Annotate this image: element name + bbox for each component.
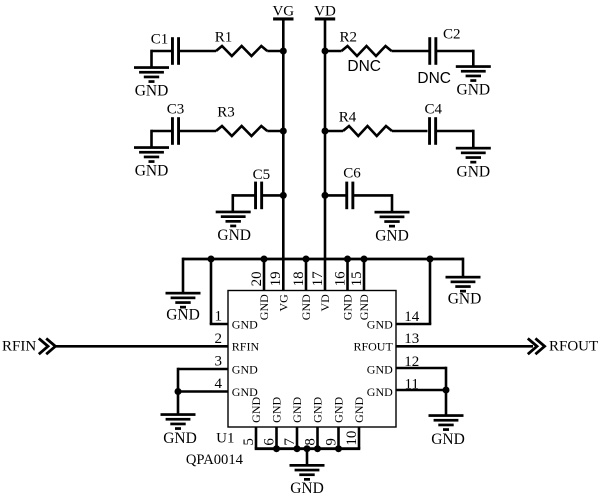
svg-text:6: 6 xyxy=(262,438,278,446)
junction bottom bus xyxy=(294,445,301,452)
svg-text:U1: U1 xyxy=(216,430,234,446)
wire C2 to ground drop xyxy=(436,50,473,53)
wire VG rail xyxy=(282,19,285,291)
svg-text:GND: GND xyxy=(367,385,393,399)
resistor R3 xyxy=(216,126,267,136)
svg-text:12: 12 xyxy=(404,354,419,370)
wire R1 to VG rail xyxy=(267,50,283,53)
wire pin 20 stub xyxy=(263,259,266,291)
wire pin13 to RFOUT xyxy=(396,345,533,348)
svg-text:C4: C4 xyxy=(425,101,443,117)
svg-text:GND: GND xyxy=(232,317,258,331)
junction bus/pin 18 xyxy=(303,256,310,263)
svg-text:GND: GND xyxy=(375,227,409,244)
wire pin 18 stub xyxy=(305,259,308,291)
wire bus left drop xyxy=(182,258,185,293)
power flag VD xyxy=(314,4,336,21)
wire pin1 branch xyxy=(210,259,213,324)
svg-text:VG: VG xyxy=(277,294,291,312)
junction bus/pin 20 xyxy=(261,256,268,263)
svg-text:8: 8 xyxy=(303,438,319,446)
svg-text:GND: GND xyxy=(352,396,366,422)
svg-text:2: 2 xyxy=(215,331,223,347)
svg-text:VD: VD xyxy=(314,4,336,20)
svg-text:GND: GND xyxy=(290,480,324,497)
svg-text:GND: GND xyxy=(431,431,465,448)
wire C1 left to ground drop xyxy=(152,50,172,53)
wire pin11 branch xyxy=(396,389,447,392)
junction VG/C5 xyxy=(280,192,287,199)
svg-text:13: 13 xyxy=(404,331,419,347)
svg-text:4: 4 xyxy=(215,376,223,392)
wire pin 16 stub xyxy=(346,259,349,291)
svg-text:GND: GND xyxy=(457,82,491,99)
svg-text:RFIN: RFIN xyxy=(232,340,260,354)
svg-text:GND: GND xyxy=(163,430,197,447)
wire top ground bus xyxy=(183,258,463,261)
wire bus right drop xyxy=(462,258,465,277)
ground (C1) xyxy=(134,66,169,100)
resistor R2 xyxy=(342,46,392,56)
ground (bottom) xyxy=(290,464,325,497)
wire pin 6 stub xyxy=(275,427,278,449)
wire C3 left to ground drop xyxy=(152,130,172,133)
svg-text:7: 7 xyxy=(282,438,298,446)
wire pin 5 stub xyxy=(255,427,258,449)
svg-text:10: 10 xyxy=(344,431,360,446)
svg-text:GND: GND xyxy=(457,163,491,180)
junction bus/pin 15 xyxy=(361,256,368,263)
wire R4 to C4 xyxy=(392,130,428,133)
wire pin 8 stub xyxy=(316,427,319,449)
svg-text:C1: C1 xyxy=(151,32,169,48)
svg-text:VG: VG xyxy=(272,4,294,20)
junction VD/R4 xyxy=(322,128,329,135)
svg-text:DNC: DNC xyxy=(347,58,381,75)
svg-text:GND: GND xyxy=(367,317,393,331)
power flag VG xyxy=(272,4,294,21)
ground (C2) xyxy=(456,65,491,99)
svg-text:RFOUT: RFOUT xyxy=(353,340,393,354)
wire C3 to R3 xyxy=(179,130,216,133)
wire bottom ground drop xyxy=(306,449,309,466)
svg-text:C5: C5 xyxy=(253,167,271,183)
svg-text:1: 1 xyxy=(215,309,223,325)
wire C5 to VG rail xyxy=(262,194,283,197)
wire C5 left to ground drop xyxy=(233,194,255,197)
node RFIN port xyxy=(2,338,55,354)
svg-text:GND: GND xyxy=(232,385,258,399)
svg-text:9: 9 xyxy=(324,438,340,446)
junction bus/pin14 xyxy=(427,256,434,263)
capacitor C3 xyxy=(171,117,180,145)
ground (bus right) xyxy=(446,276,482,308)
svg-text:QPA0014: QPA0014 xyxy=(186,452,244,468)
wire C4 to ground drop xyxy=(436,130,473,133)
ground (C4) xyxy=(456,147,491,181)
wire bottom ground bus xyxy=(255,447,361,450)
svg-text:GND: GND xyxy=(135,163,169,180)
wire pins 12-11 ground drop xyxy=(445,390,448,416)
wire VD to R4 xyxy=(325,130,343,133)
junction bottom bus xyxy=(314,445,321,452)
svg-text:14: 14 xyxy=(404,309,420,325)
resistor R1 xyxy=(216,46,267,56)
wire pins 3-4 ground drop xyxy=(177,392,180,415)
junction bus/pin1 xyxy=(208,256,215,263)
svg-text:GND: GND xyxy=(367,362,393,376)
svg-text:C3: C3 xyxy=(167,102,185,118)
svg-text:16: 16 xyxy=(332,271,348,287)
wire VD to C6 xyxy=(325,194,346,197)
capacitor C4 xyxy=(428,117,437,145)
junction bottom bus xyxy=(273,445,280,452)
wire R3 to VG rail xyxy=(267,130,283,133)
svg-text:RFOUT: RFOUT xyxy=(549,339,598,355)
svg-text:GND: GND xyxy=(341,294,355,320)
junction VD/C6 xyxy=(322,192,329,199)
wire C6 to ground drop xyxy=(353,194,392,197)
wire VD to R2 xyxy=(325,50,342,53)
svg-text:GND: GND xyxy=(166,306,200,323)
svg-text:GND: GND xyxy=(232,362,258,376)
svg-text:RFIN: RFIN xyxy=(2,339,36,355)
ground (pins 3-4) xyxy=(161,413,197,447)
svg-text:GND: GND xyxy=(270,396,284,422)
resistor R4 xyxy=(343,126,392,136)
svg-text:20: 20 xyxy=(249,271,265,286)
capacitor C1 xyxy=(171,37,180,65)
capacitor C2 xyxy=(428,37,437,65)
svg-text:DNC: DNC xyxy=(417,70,451,87)
svg-text:R3: R3 xyxy=(217,105,235,121)
wire pin 9 stub xyxy=(337,427,340,449)
ground (pins 12-11) xyxy=(429,414,465,448)
wire pin 10 stub xyxy=(358,427,361,449)
svg-text:C2: C2 xyxy=(443,26,461,42)
svg-text:17: 17 xyxy=(310,271,326,287)
svg-text:GND: GND xyxy=(299,294,313,320)
svg-text:3: 3 xyxy=(215,354,223,370)
junction pin3/pin4 xyxy=(175,388,182,395)
junction VD/R2 xyxy=(322,48,329,55)
wire C1 to R1 xyxy=(179,50,216,53)
capacitor C5 xyxy=(254,182,263,210)
wire pin3 branch xyxy=(178,368,228,371)
svg-text:R2: R2 xyxy=(340,30,358,46)
node RFOUT port xyxy=(528,338,598,354)
junction pin12/pin11 xyxy=(443,387,450,394)
op-amp U1 QPA0014 body xyxy=(228,291,396,428)
svg-text:18: 18 xyxy=(291,271,307,286)
wire pin14 branch xyxy=(429,259,432,324)
wire R2 to C2 xyxy=(392,50,429,53)
svg-text:R1: R1 xyxy=(215,30,233,46)
svg-text:GND: GND xyxy=(257,294,271,320)
junction bottom bus xyxy=(335,445,342,452)
svg-text:GND: GND xyxy=(135,83,169,100)
svg-text:GND: GND xyxy=(290,396,304,422)
wire pin12 branch xyxy=(396,367,446,370)
svg-text:GND: GND xyxy=(249,396,263,422)
svg-text:GND: GND xyxy=(357,294,371,320)
capacitor C6 xyxy=(345,182,354,210)
junction bottom bus/ground xyxy=(304,445,311,452)
svg-text:VD: VD xyxy=(318,294,332,312)
ground (C3) xyxy=(134,146,169,180)
svg-text:GND: GND xyxy=(311,396,325,422)
svg-text:11: 11 xyxy=(404,376,418,392)
wire pin 15 stub xyxy=(363,259,366,291)
ground (bus left) xyxy=(166,292,201,324)
svg-text:R4: R4 xyxy=(339,110,357,126)
svg-text:5: 5 xyxy=(241,438,257,446)
wire pin4 branch xyxy=(177,390,228,393)
svg-text:19: 19 xyxy=(268,271,284,286)
svg-text:C6: C6 xyxy=(343,165,361,181)
wire VD rail xyxy=(324,19,327,291)
wire RFIN to pin2 xyxy=(55,345,228,348)
svg-text:15: 15 xyxy=(349,271,365,286)
ground (C6) xyxy=(375,211,410,245)
svg-text:GND: GND xyxy=(448,290,482,307)
ground (C5) xyxy=(216,211,251,245)
svg-text:GND: GND xyxy=(332,396,346,422)
junction VG/R3 xyxy=(280,128,287,135)
junction bus/pin 16 xyxy=(344,256,351,263)
svg-text:GND: GND xyxy=(217,227,251,244)
junction VG/R1 xyxy=(280,48,287,55)
wire pin 7 stub xyxy=(296,427,299,449)
